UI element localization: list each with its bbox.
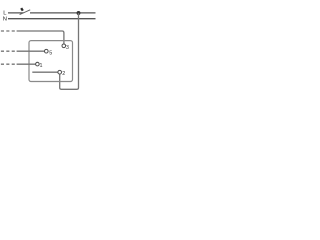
svg-text:5: 5 (49, 51, 52, 57)
svg-text:N: N (3, 16, 7, 22)
svg-text:1: 1 (40, 63, 43, 69)
svg-text:3: 3 (66, 45, 69, 51)
svg-text:2: 2 (62, 71, 65, 77)
